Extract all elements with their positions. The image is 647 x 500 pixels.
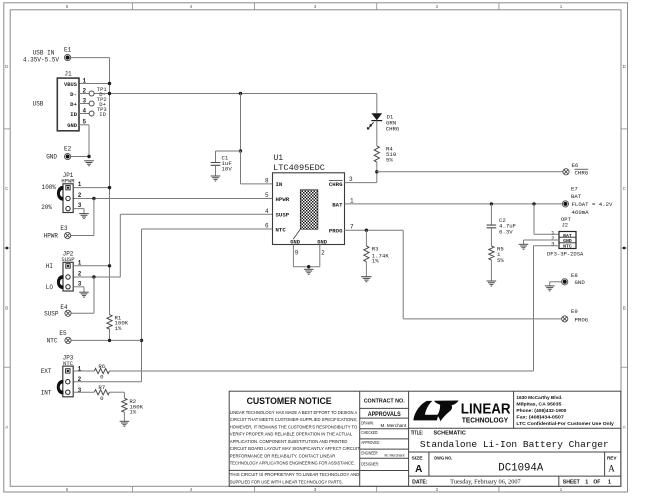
svg-text:USB: USB [33,101,44,108]
svg-text:6: 6 [265,223,269,230]
svg-text:LINEAR TECHNOLOGY HAS MADE A B: LINEAR TECHNOLOGY HAS MADE A BEST EFFORT… [230,410,358,416]
svg-text:6.3V: 6.3V [499,228,513,235]
svg-text:CONTRACT NO.: CONTRACT NO. [364,399,405,405]
svg-text:1%: 1% [115,325,122,332]
svg-text:GND: GND [563,238,572,244]
svg-text:DATE:: DATE: [412,480,428,486]
svg-text:Milpitas, CA 95035: Milpitas, CA 95035 [516,402,561,408]
svg-text:SCHEMATIC: SCHEMATIC [434,431,467,437]
svg-text:DC1094A: DC1094A [498,463,543,475]
svg-text:J1: J1 [64,71,72,78]
wire J2 GND pin [524,239,560,241]
svg-text:Fax: (408)434-0507: Fax: (408)434-0507 [516,414,564,420]
ground R5 [487,281,497,286]
JP3 shunt 2-3 [57,380,64,394]
wire E5 row [71,339,141,341]
svg-text:VBUS: VBUS [64,82,78,88]
wire R6 to J2 NTC riser [109,370,533,372]
wire CHRG to E6 [377,171,563,173]
node R3 junction [365,229,368,232]
svg-text:ENGINEER:: ENGINEER: [361,451,378,456]
connector J1 USB [57,78,79,131]
wire E4 lead [71,312,94,314]
ground JP2 pin3 [79,292,89,297]
svg-text:E8: E8 [571,272,578,279]
wire NTC to U1 [142,228,273,230]
svg-text:TECHNOLOGY: TECHNOLOGY [462,415,508,424]
test point TP1 [89,91,94,96]
svg-text:5: 5 [83,119,87,126]
node HPWR E3 junction [92,197,95,200]
wire SUSP to U1 [120,213,272,215]
wire VBUS into D1 [376,94,378,114]
svg-text:E7: E7 [571,185,578,192]
wire R3 top lead [365,230,367,246]
svg-text:1: 1 [585,480,588,486]
svg-text:D-: D- [70,91,77,98]
wire C1 branch vertical [240,94,242,152]
node SUSP E4 junction [92,275,95,278]
svg-text:A: A [608,464,615,474]
svg-text:M. Merchant: M. Merchant [381,423,407,428]
svg-text:10V: 10V [222,166,233,173]
svg-text:1: 1 [78,259,82,266]
terminal E1 [65,55,71,61]
wire into U1 IN pin [240,151,242,184]
terminal E8 [550,281,562,283]
svg-text:SUPPLIED FOR USE WITH LINEAR T: SUPPLIED FOR USE WITH LINEAR TECHNOLOGY … [230,479,343,485]
svg-text:R6: R6 [98,363,105,370]
svg-text:APPROVED:: APPROVED: [361,440,380,445]
svg-text:5: 5 [265,192,269,199]
terminal E9 [562,316,568,322]
resistor R3 [364,246,369,262]
node U1 gnd junction [307,265,310,268]
svg-text:0: 0 [100,395,104,402]
svg-text:1%: 1% [129,409,136,416]
svg-text:2: 2 [78,270,82,277]
Linear Technology logo mark [413,401,458,422]
ground R3 [361,277,372,282]
svg-text:BAT: BAT [571,193,582,200]
node CHRG junction [375,170,378,173]
svg-text:A: A [415,464,422,475]
wire R7 to R2 [109,391,124,393]
wire NTC row to JP3 pin2 [73,381,141,383]
node J2 BAT junction [532,202,535,205]
wire VBUS vertical riser upper [109,58,111,315]
wire SUSP net horizontal to JP2 [73,276,120,278]
svg-text:APPLICATION. COMPONENT SUBSTI: APPLICATION. COMPONENT SUBSTITUTION AND … [230,439,348,445]
ground J1/E2 [84,161,94,166]
jumper JP3 NTC [63,366,73,397]
svg-text:CHRG: CHRG [329,181,343,188]
svg-text:CHRG: CHRG [575,169,589,176]
svg-text:DRAWN:: DRAWN: [361,420,374,425]
title block frame [229,391,621,486]
svg-text:CUSTOMER NOTICE: CUSTOMER NOTICE [247,396,332,406]
capacitor C1 [215,151,217,162]
svg-text:PROG: PROG [329,228,343,235]
svg-text:CHRG: CHRG [386,125,400,132]
JP1 shunt 1-2 [57,186,64,201]
svg-text:E5: E5 [59,330,67,337]
resistor R4 [374,146,379,162]
svg-text:GND: GND [67,123,77,129]
svg-text:0: 0 [100,374,104,381]
wire J2 BAT riser [533,204,535,234]
svg-text:APPROVALS: APPROVALS [368,411,402,418]
wire CHRG pin stub [345,182,377,184]
svg-text:E1: E1 [64,47,72,54]
svg-text:HOWEVER, IT REMAINS THE CUSTOM: HOWEVER, IT REMAINS THE CUSTOMER'S RESPO… [230,424,358,430]
svg-text:E4: E4 [60,304,68,311]
test point TP2 [89,101,94,106]
svg-text:ID: ID [99,111,106,118]
svg-text:PROG: PROG [575,316,589,323]
wire SUSP riser [119,214,121,277]
svg-text:DWG NO.: DWG NO. [434,456,452,461]
svg-text:NTC: NTC [563,243,572,249]
terminal E6 [563,169,569,175]
wire D1 to R4 [376,121,378,146]
svg-text:HPWR: HPWR [61,177,75,184]
wire J1 pin1 to riser [79,83,110,85]
svg-text:SIZE: SIZE [412,455,423,460]
svg-text:3: 3 [78,280,82,287]
wire C1 branch horizontal [216,150,241,152]
U1 bottom gnd stubs [292,244,294,266]
svg-text:R7: R7 [98,384,105,391]
svg-text:LTC4095EDC: LTC4095EDC [273,164,325,173]
svg-text:E3: E3 [60,225,68,232]
svg-text:1: 1 [350,197,354,204]
wire E3 lead [71,235,94,237]
svg-text:INT: INT [41,390,52,397]
node NTC E5 junction [140,339,143,342]
svg-text:1630 McCarthy Blvd.: 1630 McCarthy Blvd. [516,395,563,401]
svg-text:4: 4 [83,107,87,114]
svg-text:EXT: EXT [41,368,52,375]
wire E1 to VBUS riser [71,57,110,59]
wire D- row to D1 column [94,93,377,95]
JP2 shunt 2-3 [57,275,64,289]
wire R5 to ground [490,260,492,281]
wire PROG riser to E9 [402,230,404,319]
svg-text:1: 1 [78,181,82,188]
svg-text:3: 3 [78,202,82,209]
node JP1 pin1 junction [108,186,111,189]
svg-text:IN: IN [276,181,283,188]
jumper JP1 HPWR [63,184,73,213]
svg-text:GND: GND [575,279,586,286]
svg-text:HPWR: HPWR [44,233,59,240]
svg-text:HPWR: HPWR [276,196,290,203]
svg-text:9: 9 [295,249,299,256]
svg-text:3: 3 [551,241,555,248]
wire BAT net [345,203,563,205]
svg-text:GND: GND [317,239,327,245]
svg-text:B: B [623,306,626,311]
svg-text:BAT: BAT [332,201,343,208]
svg-text:J2: J2 [562,222,569,229]
terminal E5 [65,337,71,343]
terminal E2 [65,153,71,159]
node C1 branch junction [239,149,242,152]
jumper JP2 SUSP [63,262,73,291]
svg-text:2: 2 [78,376,82,383]
ground E8 [545,286,555,291]
svg-text:2: 2 [83,87,87,94]
resistor R6 [94,368,109,373]
svg-text:E2: E2 [64,146,72,153]
svg-text:HI: HI [46,263,53,270]
svg-text:OF: OF [593,480,600,486]
svg-text:3: 3 [83,97,87,104]
svg-text:Tuesday, February 06, 2007: Tuesday, February 06, 2007 [450,480,521,486]
svg-text:3: 3 [78,387,82,394]
svg-text:SUSP: SUSP [44,311,59,318]
svg-text:REV: REV [607,455,617,460]
svg-text:CHECKED:: CHECKED: [361,430,378,435]
svg-text:4: 4 [265,208,269,215]
resistor R7 [94,390,109,395]
svg-text:20%: 20% [41,204,52,211]
svg-text:M. Merchant: M. Merchant [385,453,406,457]
terminal E7 [562,201,568,207]
svg-text:THIS CIRCUIT IS PROPRIETARY TO: THIS CIRCUIT IS PROPRIETARY TO LINEAR TE… [230,472,360,478]
svg-text:ID: ID [70,111,77,118]
node JP2 pin1 junction [108,264,111,267]
ground J2 [519,244,529,249]
svg-text:U1: U1 [274,154,284,163]
terminal E3 [65,232,71,238]
wire JP3 pin1 to R6 [73,370,94,372]
svg-text:FLOAT = 4.2V: FLOAT = 4.2V [572,201,614,208]
terminal E4 [65,310,71,316]
svg-text:A: A [623,425,626,430]
svg-text:2: 2 [321,249,325,256]
ground JP1 pin3 [79,214,89,219]
svg-text:1: 1 [83,77,87,84]
wire NTC riser [141,229,143,382]
svg-text:CIRCUIT THAT MEETS CUSTOMER-SU: CIRCUIT THAT MEETS CUSTOMER-SUPPLIED SPE… [230,417,357,423]
svg-text:NTC: NTC [47,338,58,345]
svg-text:LO: LO [46,284,54,291]
ground U1 [304,269,314,274]
wire HPWR net [73,198,272,200]
svg-text:NTC: NTC [276,226,287,233]
svg-text:1: 1 [608,480,611,486]
node C2 junction [490,202,493,205]
ground C1 [211,176,221,181]
svg-text:DESIGNER:: DESIGNER: [361,461,379,466]
wire R3 to ground [365,262,367,277]
svg-text:BAT: BAT [563,233,572,239]
svg-text:A: A [5,425,8,430]
svg-text:TITLE:: TITLE: [411,431,424,437]
node D- riser junction [108,92,111,95]
JP2 pin stubs [73,265,109,267]
svg-text:VERIFY PROPER AND RELIABLE OPE: VERIFY PROPER AND RELIABLE OPERATION IN … [230,432,353,438]
svg-text:E6: E6 [572,162,579,169]
ground R2 [120,421,130,426]
J1 pin stubs and numbers [79,93,89,95]
svg-text:PERFORMANCE OR RELIABILITY. C: PERFORMANCE OR RELIABILITY. CONTACT LINE… [230,453,336,459]
svg-text:1%: 1% [372,258,379,265]
svg-text:7: 7 [350,224,354,231]
JP1 pin stubs [73,187,109,189]
resistor R2 [122,398,127,412]
wire J2 NTC riser [534,245,560,247]
node C1 top junction [239,92,242,95]
svg-text:460mA: 460mA [572,209,590,216]
svg-text:USB IN: USB IN [33,50,55,57]
svg-text:8: 8 [265,177,269,184]
resistor R5 [489,246,494,260]
svg-text:SHEET: SHEET [563,480,580,486]
svg-text:GND: GND [290,239,300,245]
node R1 bottom junction [108,339,111,342]
svg-text:TECHNOLOGY APPLICATIONS ENGINE: TECHNOLOGY APPLICATIONS ENGINEERING FOR … [230,461,355,467]
svg-text:CIRCUIT BOARD LAYOUT MAY SIGNI: CIRCUIT BOARD LAYOUT MAY SIGNIFICANTLY A… [230,446,360,452]
svg-text:Phone: (408)432-1900: Phone: (408)432-1900 [516,408,566,414]
svg-text:100%: 100% [42,184,57,191]
capacitor C2 [490,204,492,225]
svg-text:NTC: NTC [63,360,74,367]
wire R4 to CHRG node [376,162,378,183]
test point TP3 [89,111,94,116]
svg-text:LTC Confidential-For Customer: LTC Confidential-For Customer Use Only [516,421,614,427]
svg-text:2: 2 [78,192,82,199]
svg-text:D+: D+ [70,101,77,108]
svg-text:Standalone Li-Ion Battery Char: Standalone Li-Ion Battery Charger [420,439,609,450]
svg-text:4.35V-5.5V: 4.35V-5.5V [23,57,59,64]
svg-text:5%: 5% [497,257,504,264]
wire JP3 pin3 to R7 [73,391,94,393]
wire VBUS riser below R1 [109,329,111,340]
resistor R1 [107,315,112,330]
node J1 pin1 junction [108,82,111,85]
svg-text:B: B [5,306,8,311]
svg-text:SUSP: SUSP [276,211,290,218]
wire E2 to ground [71,156,89,158]
svg-text:DF3-3P-2DSA: DF3-3P-2DSA [547,251,584,258]
wire R2 to ground [123,412,125,421]
U1 exposed pad hatch [300,190,318,229]
node J1 gnd E2 junction [87,155,90,158]
svg-text:5%: 5% [386,157,393,164]
svg-text:GND: GND [46,154,57,161]
op-amp U1 LTC4095EDC body [273,173,345,245]
diode D1 LED [371,113,382,120]
svg-text:SUSP: SUSP [61,256,74,263]
svg-text:E9: E9 [571,308,578,315]
wire PROG net [345,229,404,231]
connector J2 [559,232,576,249]
